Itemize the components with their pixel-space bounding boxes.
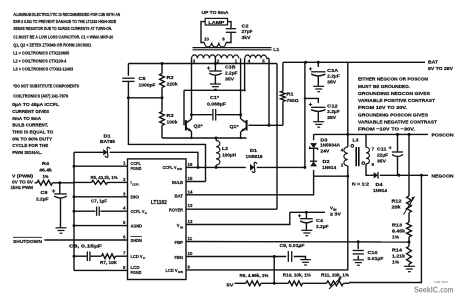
svg-text:1182 TA01: 1182 TA01 (434, 280, 448, 284)
svg-text:100µH: 100µH (222, 152, 237, 157)
svg-text:R7, 10K: R7, 10K (100, 260, 118, 265)
svg-text:2.2µF: 2.2µF (225, 71, 238, 76)
svg-text:8.45k: 8.45k (392, 229, 405, 234)
svg-text:10: 10 (204, 37, 209, 42)
svg-text:GROUNDING NEGCON GIVES: GROUNDING NEGCON GIVES (358, 91, 431, 97)
svg-text:35V: 35V (377, 158, 387, 163)
svg-text:750Ω: 750Ω (287, 98, 299, 103)
svg-text:0mA TO 6mA: 0mA TO 6mA (12, 116, 41, 122)
svg-text:R4: R4 (42, 161, 50, 166)
svg-text:R14: R14 (392, 248, 403, 253)
svg-text:1.21k: 1.21k (392, 254, 405, 259)
svg-text:SENSE RESISTOR DUE TO SURGE CU: SENSE RESISTOR DUE TO SURGE CURRENTS AT … (13, 26, 112, 32)
svg-text:R2: R2 (167, 75, 175, 80)
svg-text:R1: R1 (287, 92, 295, 97)
svg-text:CCFL V: CCFL V (131, 209, 145, 214)
svg-text:BAT: BAT (428, 60, 438, 65)
svg-text:0.068µF: 0.068µF (207, 101, 226, 106)
svg-text:1%: 1% (392, 260, 399, 265)
svg-text:C1*: C1* (210, 95, 219, 100)
svg-text:ALUMINUM ELECTROLYTIC IS RECOM: ALUMINUM ELECTROLYTIC IS RECOMMENDED FOR… (13, 12, 120, 18)
svg-text:+: + (389, 146, 392, 152)
svg-text:3kV: 3kV (242, 35, 252, 40)
svg-text:1%: 1% (392, 235, 399, 240)
svg-text:MUST BE GROUNDED.: MUST BE GROUNDED. (358, 84, 411, 90)
svg-text:SHUTDOWN: SHUTDOWN (13, 239, 43, 245)
svg-text:N = 1:2: N = 1:2 (352, 181, 369, 186)
svg-text:C11: C11 (377, 146, 387, 151)
svg-text:LCD V: LCD V (166, 268, 178, 273)
svg-text:BULB: BULB (172, 180, 183, 185)
svg-text:220k: 220k (167, 81, 178, 86)
svg-text:L1: L1 (273, 47, 279, 52)
svg-text:1N5818: 1N5818 (246, 154, 263, 159)
svg-text:C9, 0.01µF: C9, 0.01µF (280, 243, 305, 248)
svg-text:*DO NOT SUBSTITUTE COMPONENTS: *DO NOT SUBSTITUTE COMPONENTS (13, 84, 80, 90)
svg-text:COILTRONICS (407) 241-7876: COILTRONICS (407) 241-7876 (13, 93, 68, 99)
svg-text:R11, 20k, 1%: R11, 20k, 1% (321, 272, 349, 277)
svg-text:Q1*: Q1* (230, 124, 239, 130)
svg-text:GROUNDING POSCON GIVES: GROUNDING POSCON GIVES (358, 112, 429, 118)
svg-text:R10, 10k, 1%: R10, 10k, 1% (283, 272, 311, 277)
svg-text:5V: 5V (227, 283, 235, 288)
svg-text:0.01µF: 0.01µF (368, 256, 384, 261)
svg-text:DIO: DIO (131, 195, 140, 200)
svg-text:LT1182: LT1182 (151, 200, 167, 206)
svg-text:35V: 35V (327, 115, 337, 120)
svg-text:≥ 3V: ≥ 3V (330, 212, 342, 217)
svg-text:11: 11 (188, 236, 193, 241)
svg-text:UP TO 6mA: UP TO 6mA (202, 10, 230, 15)
svg-text:CURRENT GIVES: CURRENT GIVES (12, 109, 50, 115)
svg-text:27pF: 27pF (242, 29, 253, 34)
svg-text:35V: 35V (225, 77, 235, 82)
svg-text:PWM SIGNAL.: PWM SIGNAL. (12, 150, 43, 156)
svg-text:8V TO 28V: 8V TO 28V (428, 66, 454, 71)
svg-text:16: 16 (188, 162, 193, 167)
svg-text:C3A: C3A (327, 68, 339, 73)
svg-text:100k: 100k (167, 119, 178, 124)
svg-text:D1: D1 (250, 148, 258, 153)
svg-text:Q2*: Q2* (194, 124, 203, 130)
svg-text:R12: R12 (392, 199, 403, 204)
svg-text:20k: 20k (392, 205, 402, 210)
svg-text:R13: R13 (392, 223, 403, 228)
svg-text:FROM 10V TO 30V.: FROM 10V TO 30V. (358, 105, 408, 111)
svg-text:PGND: PGND (131, 270, 142, 275)
svg-text:2.2µF: 2.2µF (327, 109, 340, 114)
svg-text:AGND: AGND (131, 223, 143, 228)
svg-text:ROYER: ROYER (169, 207, 184, 212)
svg-text:0µA TO 45µA ICCFL: 0µA TO 45µA ICCFL (12, 102, 59, 108)
svg-text:15: 15 (188, 176, 193, 181)
svg-text:2.2µF: 2.2µF (36, 196, 49, 201)
svg-text:C3B: C3B (225, 65, 236, 70)
svg-text:C4: C4 (316, 218, 324, 223)
svg-text:1N914: 1N914 (322, 165, 336, 170)
svg-text:C6: C6 (41, 190, 49, 195)
svg-text:1%: 1% (43, 174, 49, 179)
svg-text:1N5934A: 1N5934A (320, 143, 341, 148)
svg-text:L1 = COILTRONICS CTX210605: L1 = COILTRONICS CTX210605 (13, 51, 69, 57)
svg-text:46.4k: 46.4k (39, 167, 52, 172)
svg-text:L2 = COILTRONICS CTX100-4: L2 = COILTRONICS CTX100-4 (13, 59, 66, 65)
svg-text:1kHz PWM: 1kHz PWM (11, 185, 34, 190)
svg-text:BAT85: BAT85 (100, 139, 115, 144)
svg-text:14: 14 (188, 189, 193, 194)
svg-text:NEGCON: NEGCON (432, 173, 455, 178)
svg-text:35V: 35V (327, 79, 337, 84)
svg-text:PGND: PGND (131, 166, 142, 171)
svg-text:D1: D1 (104, 133, 112, 138)
svg-text:SHDN: SHDN (131, 238, 143, 243)
svg-text:CCFL V: CCFL V (163, 165, 177, 170)
svg-text:C10: C10 (368, 250, 379, 255)
svg-text:C2: C2 (242, 23, 250, 28)
svg-text:L3: L3 (353, 137, 359, 142)
svg-text:2.2µF: 2.2µF (316, 224, 329, 229)
svg-text:D2: D2 (323, 159, 331, 164)
svg-text:R5, 43.2k, 1%: R5, 43.2k, 1% (91, 175, 118, 180)
svg-text:C1 MUST BE A LOW LOSS CAPACITO: C1 MUST BE A LOW LOSS CAPACITOR. C1 = WI… (13, 34, 113, 40)
svg-text:C7, 1µF: C7, 1µF (91, 198, 107, 203)
svg-text:EITHER NEGCON OR POSCON: EITHER NEGCON OR POSCON (358, 77, 428, 83)
svg-text:L3 = COILTRONICS CTX02-12403: L3 = COILTRONICS CTX02-12403 (13, 67, 73, 73)
svg-text:1000pF: 1000pF (139, 82, 156, 87)
svg-text:2.2µF: 2.2µF (327, 74, 340, 79)
svg-text:0% TO 90% DUTY: 0% TO 90% DUTY (12, 136, 53, 142)
svg-text:FBN: FBN (175, 255, 184, 260)
svg-text:ESR ≥ 0.5Ω TO PREVENT DAMAGE T: ESR ≥ 0.5Ω TO PREVENT DAMAGE TO THE LT11… (13, 19, 117, 25)
svg-text:Q1, Q2 = ZETEX ZTX849 OR ROHM: Q1, Q2 = ZETEX ZTX849 OR ROHM 2SC5001 (13, 42, 91, 48)
svg-text:24V: 24V (320, 149, 330, 154)
svg-text:THIS IS EQUAL TO: THIS IS EQUAL TO (12, 130, 53, 136)
svg-text:VARIABLE POSITIVE CONTRAST: VARIABLE POSITIVE CONTRAST (358, 98, 435, 104)
svg-text:FBP: FBP (175, 240, 184, 245)
svg-text:FROM −10V TO −30V.: FROM −10V TO −30V. (358, 127, 416, 133)
svg-text:SW: SW (177, 167, 182, 171)
svg-text:POSCON: POSCON (432, 133, 455, 138)
svg-text:CCFL: CCFL (132, 183, 139, 187)
svg-text:V (PWM): V (PWM) (12, 174, 34, 179)
svg-text:1N914: 1N914 (373, 188, 387, 193)
svg-text:R9, 4.99k, 1%: R9, 4.99k, 1% (240, 273, 269, 278)
svg-text:VARIABLE NEGATIVE CONTRAST: VARIABLE NEGATIVE CONTRAST (358, 120, 437, 126)
svg-text:LCD V: LCD V (131, 254, 143, 259)
svg-text:22µF: 22µF (377, 152, 388, 157)
svg-text:0V TO 5V: 0V TO 5V (12, 179, 34, 184)
svg-text:BAT: BAT (175, 194, 184, 199)
svg-text:LAMP: LAMP (208, 20, 224, 25)
svg-text:C12: C12 (327, 103, 338, 108)
svg-text:C5: C5 (139, 76, 147, 81)
svg-text:SW: SW (178, 270, 183, 274)
svg-text:13: 13 (188, 203, 193, 208)
svg-text:R3: R3 (167, 113, 175, 118)
svg-text:SeekIC: SeekIC (414, 285, 438, 294)
svg-text:BULB CURRENT.: BULB CURRENT. (12, 123, 49, 129)
svg-text:10: 10 (188, 251, 193, 256)
svg-text:D4: D4 (376, 182, 384, 187)
svg-text:12: 12 (188, 219, 193, 224)
svg-text:L2: L2 (222, 146, 228, 151)
svg-text:C8, 0.15µF: C8, 0.15µF (69, 243, 102, 248)
svg-text:CYCLE FOR THE: CYCLE FOR THE (12, 143, 49, 149)
svg-text:.com: .com (439, 285, 454, 294)
